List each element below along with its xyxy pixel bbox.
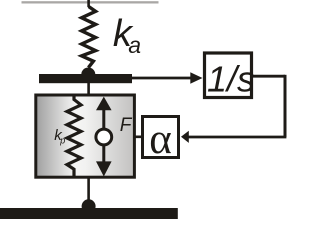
svg-text:α: α — [149, 116, 172, 163]
svg-text:1/s: 1/s — [207, 58, 255, 99]
svg-text:p: p — [59, 135, 65, 145]
svg-text:F: F — [120, 115, 133, 136]
svg-text:a: a — [128, 32, 141, 58]
